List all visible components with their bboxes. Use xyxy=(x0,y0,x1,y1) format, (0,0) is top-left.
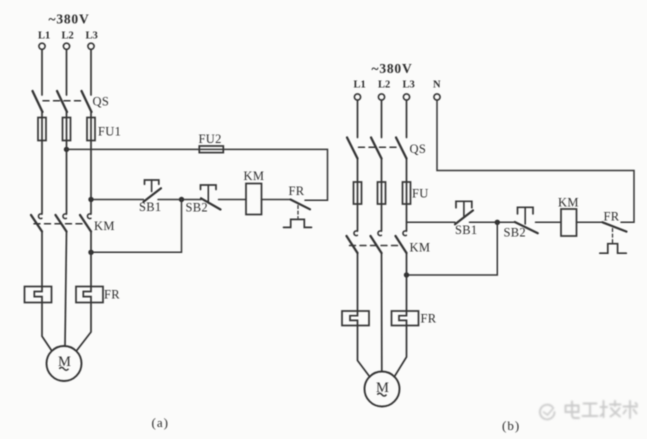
contactor KM (a) main contact hook pole 3 xyxy=(87,214,91,219)
switch QS (a) linkage dashed xyxy=(43,100,84,102)
wire control row left: L3 tap to SB1 (a) xyxy=(91,199,144,201)
wire L2 phase b: QS to KM contact xyxy=(381,159,383,231)
svg-text:SB2: SB2 xyxy=(504,225,526,239)
terminal L3 (b) xyxy=(403,94,409,100)
wire L1 phase b: terminal to QS xyxy=(357,100,359,137)
wire L3 phase a: terminal to QS xyxy=(90,49,92,95)
node self-hold on L3 below KM (a) xyxy=(88,250,93,255)
relay FR (b) actuator dashed xyxy=(612,229,614,244)
svg-text:KM: KM xyxy=(410,241,431,255)
svg-text:(b): (b) xyxy=(502,418,520,433)
motor tilde mark (b) xyxy=(377,393,386,396)
svg-text:L1: L1 xyxy=(354,80,366,91)
wire SB2 to KM coil (b) xyxy=(536,221,562,223)
pushbutton SB2 (a) stem xyxy=(207,185,209,203)
svg-text:N: N xyxy=(433,80,441,91)
wire self-hold branch (a) xyxy=(91,200,182,253)
switch QS (b) blade pole 1 xyxy=(347,138,358,159)
wire SB2 to KM coil (a) xyxy=(219,199,247,201)
heater FR (a) box pole 1 xyxy=(25,287,52,303)
pushbutton SB1 (a) stem xyxy=(151,180,153,192)
svg-text:KM: KM xyxy=(558,196,579,210)
contactor KM (b) main contact blade pole 1 xyxy=(347,236,358,253)
svg-text:FU: FU xyxy=(412,187,429,201)
svg-text:~380V: ~380V xyxy=(372,61,413,76)
watermark char shu xyxy=(624,401,638,418)
wire L3 phase a: QS to KM contact xyxy=(90,112,92,214)
switch QS (b) linkage dashed xyxy=(359,146,400,148)
svg-text:FR: FR xyxy=(421,312,437,326)
pushbutton SB1 (a) cap xyxy=(145,180,159,184)
wire L1 below KM with FR heater detour to motor (b) xyxy=(350,253,370,377)
svg-text:QS: QS xyxy=(93,95,110,109)
svg-text:L2: L2 xyxy=(378,80,390,91)
node self-hold on L3 below KM (b) xyxy=(404,272,409,277)
wire L1 phase a: terminal to QS xyxy=(41,49,43,95)
contactor KM (b) main contact hook pole 2 xyxy=(378,231,382,236)
svg-text:~380V: ~380V xyxy=(49,12,90,27)
watermark logo circle xyxy=(540,405,555,420)
node self-hold junction (a) xyxy=(179,197,184,202)
contactor KM (a) main contact blade pole 3 xyxy=(80,215,91,232)
watermark char gong xyxy=(583,404,598,417)
svg-text:QS: QS xyxy=(410,142,427,156)
coil KM (a) xyxy=(246,184,262,215)
wire L1 below KM with FR heater detour to motor (a) xyxy=(34,232,52,351)
relay FR (a) actuator dashed xyxy=(297,206,299,219)
terminal L3 (a) xyxy=(88,43,94,49)
pushbutton SB2 (b) stem xyxy=(524,207,526,224)
wire L2 phase a: terminal to QS xyxy=(66,49,68,95)
svg-text:L3: L3 xyxy=(403,80,415,91)
svg-text:L2: L2 xyxy=(62,31,74,42)
watermark char dian xyxy=(566,402,580,419)
wire L2 below KM to motor (b) xyxy=(381,253,383,372)
relay contact FR (b) NC blade xyxy=(603,222,627,231)
pushbutton SB2 (a) cap xyxy=(201,185,217,190)
heater FR (b) box pole 3 xyxy=(392,311,419,326)
fuse FU1 (a) pole 3 xyxy=(87,118,95,141)
svg-text:L3: L3 xyxy=(86,31,98,42)
pushbutton SB1 (a) NC blade xyxy=(144,188,162,202)
wire L2 below KM to motor (a) xyxy=(65,232,67,347)
svg-text:FR: FR xyxy=(604,210,620,224)
svg-text:SB2: SB2 xyxy=(186,201,208,215)
pushbutton SB2 (a) NO blade xyxy=(201,198,221,209)
heater FR (a) box pole 3 xyxy=(76,287,103,303)
node tap on L3 (a) xyxy=(88,197,93,202)
wire L3 phase b: QS to KM contact xyxy=(406,159,408,231)
wire L1 phase a: QS to KM contact xyxy=(41,112,43,214)
wire SB1 to SB2 (a) xyxy=(158,199,201,201)
terminal L1 (a) xyxy=(39,43,45,49)
svg-text:FU2: FU2 xyxy=(199,132,222,146)
watermark char ji xyxy=(601,401,621,417)
wire L2 phase b: terminal to QS xyxy=(381,100,383,137)
svg-text:KM: KM xyxy=(94,219,115,233)
svg-text:SB1: SB1 xyxy=(455,223,477,237)
svg-text:FR: FR xyxy=(104,288,120,302)
switch QS (b) blade pole 3 xyxy=(396,138,407,159)
contactor KM (b) main contact hook pole 3 xyxy=(403,231,407,236)
node tap on L2 for control circuit (a) xyxy=(64,147,69,152)
svg-text:L1: L1 xyxy=(38,31,50,42)
pushbutton SB1 (b) cap xyxy=(456,201,472,208)
wire self-hold branch (b) xyxy=(407,222,498,275)
relay FR (a) thermal element symbol xyxy=(284,219,312,227)
contactor KM (a) main contact blade pole 2 xyxy=(56,215,67,232)
contactor KM (a) main contact hook pole 1 xyxy=(38,214,42,219)
wire L3 below KM with FR heater detour to motor (a) xyxy=(77,232,91,351)
pushbutton SB2 (b) NO blade xyxy=(515,222,538,233)
relay contact FR (a) NC blade xyxy=(291,200,311,210)
wire control top run with right edge down (a) xyxy=(67,149,328,200)
contactor KM (b) main contact blade pole 2 xyxy=(371,236,382,253)
wire control tap L3 to SB1 (b) xyxy=(407,221,456,223)
wire L1 phase b: QS to KM contact xyxy=(357,159,359,231)
contactor KM (b) main contact blade pole 3 xyxy=(396,236,407,253)
wire L3 phase b: terminal to QS xyxy=(406,100,408,137)
wire N phase b: terminal down, right and to FR contact xyxy=(437,100,634,222)
heater FR (b) box pole 1 xyxy=(342,311,369,326)
svg-text:SB1: SB1 xyxy=(139,200,161,214)
contactor KM (a) linkage dashed xyxy=(34,223,86,225)
fuse FU (b) pole 3 xyxy=(403,182,411,204)
wire KM coil to FR contact (b) xyxy=(577,221,603,223)
contactor KM (b) linkage dashed xyxy=(350,245,402,247)
fuse FU2 (a) xyxy=(199,146,223,153)
motor M (a) circle xyxy=(47,346,82,381)
svg-text:FU1: FU1 xyxy=(98,124,121,138)
wire SB1 to SB2 (b) xyxy=(470,221,515,223)
fuse FU1 (a) pole 2 xyxy=(63,118,71,141)
terminal N (b) xyxy=(434,94,440,100)
wire L2 phase a: QS to KM contact xyxy=(66,112,68,214)
fuse FU1 (a) pole 1 xyxy=(38,118,46,141)
pushbutton SB1 (b) NC blade xyxy=(455,210,473,224)
fuse FU (b) pole 2 xyxy=(378,182,386,204)
svg-text:KM: KM xyxy=(244,169,265,183)
fuse FU (b) pole 1 xyxy=(354,182,362,204)
wire L3 below KM with FR heater detour to motor (b) xyxy=(394,253,406,377)
coil KM (b) xyxy=(561,209,577,236)
switch QS (a) blade pole 2 xyxy=(57,91,67,112)
motor M (b) circle xyxy=(365,372,400,407)
contactor KM (a) main contact hook pole 2 xyxy=(63,214,67,219)
switch QS (a) blade pole 3 xyxy=(82,91,92,112)
pushbutton SB1 (b) stem xyxy=(463,201,465,216)
contactor KM (b) main contact hook pole 1 xyxy=(354,231,358,236)
svg-text:(a): (a) xyxy=(152,415,169,430)
node self-hold junction (b) xyxy=(495,220,500,225)
watermark logo inner tick xyxy=(544,408,554,415)
switch QS (b) blade pole 2 xyxy=(371,138,382,159)
wire KM coil to FR contact (a) xyxy=(262,199,291,201)
terminal L2 (b) xyxy=(378,94,384,100)
terminal L1 (b) xyxy=(354,94,360,100)
svg-text:FR: FR xyxy=(289,184,305,198)
motor tilde mark (a) xyxy=(59,367,68,370)
contactor KM (a) main contact blade pole 1 xyxy=(31,215,42,232)
relay FR (b) thermal element symbol xyxy=(600,244,627,254)
pushbutton SB2 (b) cap xyxy=(518,207,534,214)
switch QS (a) blade pole 1 xyxy=(33,91,43,112)
terminal L2 (a) xyxy=(63,43,69,49)
